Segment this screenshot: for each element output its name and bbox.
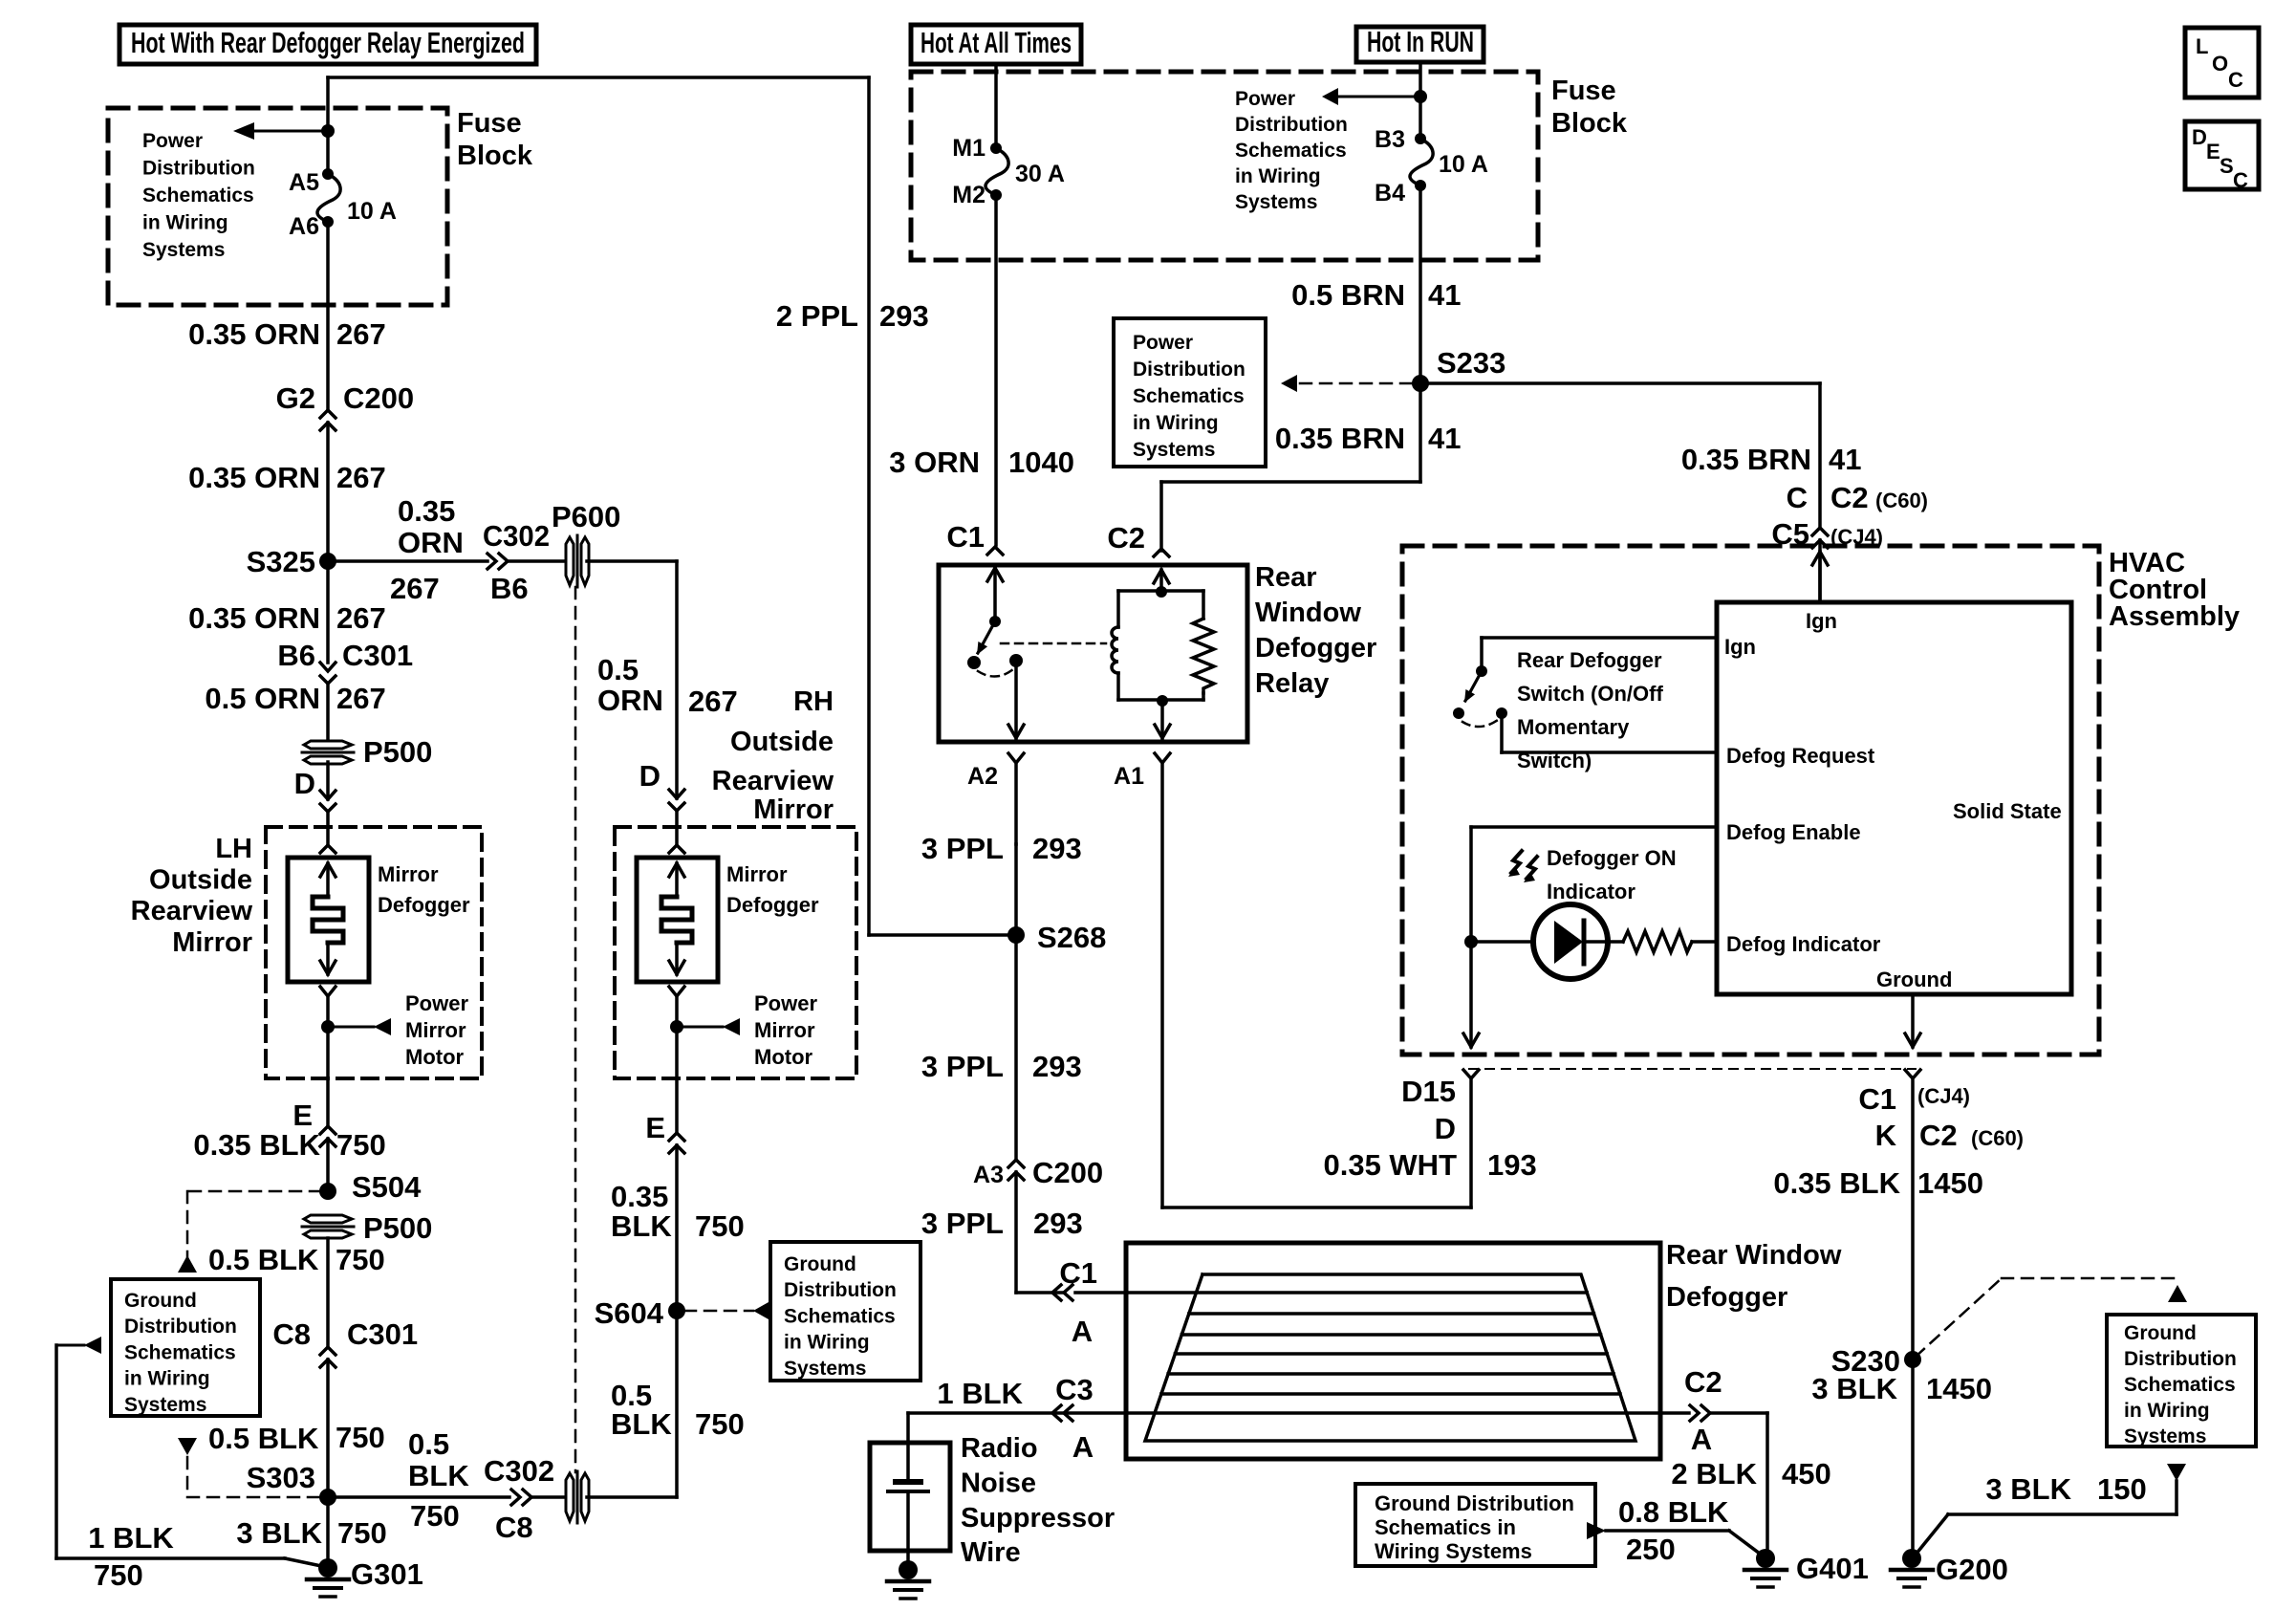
svg-text:0.35: 0.35 xyxy=(398,494,455,528)
wire: C1 feed grid line xyxy=(1126,1291,1587,1295)
svg-text:0.5 BRN: 0.5 BRN xyxy=(1291,278,1405,312)
svg-text:267: 267 xyxy=(336,317,386,351)
node: coil top feed xyxy=(1156,586,1167,598)
svg-text:in Wiring: in Wiring xyxy=(2124,1400,2210,1422)
svg-text:750: 750 xyxy=(695,1407,745,1441)
ground distribution reference box (bottom) xyxy=(1355,1484,1595,1566)
svg-text:750: 750 xyxy=(410,1499,460,1533)
svg-text:150: 150 xyxy=(2097,1472,2147,1506)
node: LH power mirror motor tap xyxy=(321,1020,335,1033)
svg-text:C1: C1 xyxy=(1059,1256,1097,1290)
splice S233 xyxy=(1412,375,1429,392)
LH mirror defogger element box xyxy=(288,858,369,982)
connector C3 pin A inline arrows xyxy=(1064,1405,1072,1421)
header box: Hot At All Times xyxy=(911,25,1081,64)
svg-text:Ground: Ground xyxy=(124,1290,197,1312)
rear window defogger box xyxy=(1126,1243,1660,1459)
svg-text:750: 750 xyxy=(695,1209,745,1243)
svg-text:Distribution: Distribution xyxy=(1133,359,1245,381)
svg-text:Power: Power xyxy=(142,130,203,152)
svg-text:Rear Defogger: Rear Defogger xyxy=(1517,648,1662,672)
connector face line (HVAC bottom) xyxy=(1469,1068,1916,1070)
svg-text:293: 293 xyxy=(879,299,929,333)
svg-text:267: 267 xyxy=(336,682,386,715)
wire: C301 to P500 xyxy=(326,684,330,744)
wire: 2 PPL drop to S268 xyxy=(867,77,871,935)
svg-text:Window: Window xyxy=(1255,598,1361,628)
wire: P600 to RH mirror drop xyxy=(587,559,677,563)
svg-text:S: S xyxy=(2220,154,2234,178)
node: junction at fuse block feed xyxy=(321,124,335,138)
wire: P500 to connector D (LH mirror) xyxy=(326,762,330,799)
svg-text:0.35 ORN: 0.35 ORN xyxy=(188,317,320,351)
node: junction to power distribution reference xyxy=(1414,90,1427,103)
svg-text:750: 750 xyxy=(336,1421,385,1454)
svg-text:3 PPL: 3 PPL xyxy=(921,1050,1004,1083)
splice S325 xyxy=(319,553,336,570)
HVAC control assembly dashed box xyxy=(1402,546,2099,1055)
wire: E to S504 xyxy=(326,1139,330,1191)
splice S303 xyxy=(319,1489,336,1506)
wire: S303 to C302 (C8) grommet and RH mirror ground xyxy=(328,1495,509,1499)
svg-text:C200: C200 xyxy=(343,381,414,415)
svg-text:Assembly: Assembly xyxy=(2109,601,2240,632)
defogger grid line xyxy=(1189,1312,1594,1316)
wire: switch to Defog Request xyxy=(1500,719,1504,752)
svg-text:G301: G301 xyxy=(351,1557,423,1591)
wire: RH mirror ground to connector E xyxy=(675,1078,679,1133)
wire: Hot In RUN to 10A fuse xyxy=(1419,62,1422,134)
svg-text:250: 250 xyxy=(1626,1533,1676,1566)
svg-text:750: 750 xyxy=(337,1516,387,1550)
capacitor (radio noise suppressor) xyxy=(896,1479,921,1485)
svg-text:Rearview: Rearview xyxy=(131,896,253,926)
grommet P600 xyxy=(566,537,574,585)
svg-text:293: 293 xyxy=(1032,1050,1082,1083)
svg-text:0.8 BLK: 0.8 BLK xyxy=(1618,1495,1729,1529)
svg-text:C1: C1 xyxy=(1858,1082,1896,1116)
svg-text:in Wiring: in Wiring xyxy=(784,1332,870,1354)
wire: D15 to relay A1 (defog enable) xyxy=(1162,1206,1471,1209)
svg-text:S268: S268 xyxy=(1037,921,1106,954)
svg-text:Distribution: Distribution xyxy=(1235,114,1348,136)
radio noise suppressor box xyxy=(870,1443,950,1551)
svg-text:Ign: Ign xyxy=(1724,635,1756,659)
svg-text:Ground: Ground xyxy=(784,1253,856,1275)
svg-text:750: 750 xyxy=(336,1243,385,1276)
svg-text:Systems: Systems xyxy=(1235,191,1317,213)
svg-text:Radio: Radio xyxy=(961,1433,1038,1464)
svg-text:Systems: Systems xyxy=(142,239,225,261)
rear window defogger grid (trapezoid) xyxy=(1145,1274,1635,1441)
svg-text:E: E xyxy=(292,1099,313,1132)
svg-text:B4: B4 xyxy=(1375,180,1405,207)
svg-text:0.5: 0.5 xyxy=(408,1427,449,1461)
svg-text:P500: P500 xyxy=(363,1211,432,1245)
svg-text:C2: C2 xyxy=(1684,1365,1722,1399)
wire: C200 to S325 xyxy=(326,423,330,561)
arrow + wire: 0.8 BLK 250 ground lead xyxy=(1587,1522,1606,1539)
svg-text:Systems: Systems xyxy=(124,1394,206,1416)
svg-text:Systems: Systems xyxy=(784,1358,866,1380)
fuse block (left) dashed outline xyxy=(108,108,447,305)
splice S230 xyxy=(1904,1351,1921,1368)
wire: S268 to A3/C200 xyxy=(1014,935,1018,1160)
svg-text:Switch): Switch) xyxy=(1517,749,1592,772)
svg-text:S303: S303 xyxy=(247,1461,315,1494)
svg-text:0.35 ORN: 0.35 ORN xyxy=(188,601,320,635)
fuse 10 A (B3-B4) xyxy=(1415,133,1426,144)
wire: drop to radio noise suppressor xyxy=(906,1413,910,1481)
svg-text:0.35 WHT: 0.35 WHT xyxy=(1323,1148,1457,1182)
svg-text:Power: Power xyxy=(405,991,468,1015)
ground (radio noise suppressor) xyxy=(899,1560,918,1579)
dashed arrow: S230 to ground distribution reference (right) xyxy=(1916,1278,2002,1357)
svg-text:Power: Power xyxy=(1235,88,1295,110)
svg-text:Distribution: Distribution xyxy=(142,158,255,180)
svg-text:Defog Enable: Defog Enable xyxy=(1726,820,1861,844)
HVAC solid state module box xyxy=(1717,602,2071,994)
relay coil suppression resistor xyxy=(1202,591,1205,619)
wire: feed from header down into fuse block (x=343) xyxy=(326,77,330,169)
wire: S325 branch to C302 (0.35 ORN 267 B6) xyxy=(328,559,487,563)
wire: LH mirror ground out to connector E xyxy=(326,1078,330,1126)
svg-text:0.35 BLK: 0.35 BLK xyxy=(1773,1166,1900,1200)
relay switch dashed link to coil xyxy=(978,669,1013,677)
svg-text:E: E xyxy=(2206,140,2220,163)
svg-text:C8: C8 xyxy=(495,1511,533,1544)
wire: element to RH power mirror motor junction xyxy=(675,996,679,1078)
svg-text:41: 41 xyxy=(1829,443,1861,476)
wire: Ground pin to C1/K xyxy=(1911,994,1915,1047)
fuse 30 A (M1-M2) xyxy=(990,142,1002,154)
svg-text:Block: Block xyxy=(457,141,533,171)
wire: 1 BLK 750 to G301 xyxy=(54,1345,58,1558)
svg-text:Indicator: Indicator xyxy=(1547,880,1635,903)
wire: 3 BLK 150 ground lead xyxy=(2167,1464,2186,1481)
svg-text:Schematics: Schematics xyxy=(1235,140,1347,162)
svg-text:M2: M2 xyxy=(952,182,986,208)
svg-text:Distribution: Distribution xyxy=(124,1316,237,1338)
rear defogger switch (momentary) xyxy=(1476,665,1487,677)
grommet at C302/C8 xyxy=(566,1473,574,1521)
svg-text:M1: M1 xyxy=(952,135,986,162)
RH mirror connector at defogger element xyxy=(669,845,684,853)
svg-text:A5: A5 xyxy=(289,169,319,196)
svg-text:Schematics: Schematics xyxy=(142,185,254,207)
svg-text:G401: G401 xyxy=(1796,1552,1869,1585)
svg-text:3 PPL: 3 PPL xyxy=(921,832,1004,865)
svg-text:3 ORN: 3 ORN xyxy=(889,446,980,479)
ground G301 xyxy=(318,1558,337,1577)
dashed arrow: S604 to ground distribution reference xyxy=(684,1310,753,1313)
svg-text:Wire: Wire xyxy=(961,1537,1021,1568)
svg-text:E: E xyxy=(645,1111,665,1144)
svg-text:Solid State: Solid State xyxy=(1953,799,2062,823)
svg-text:Ground: Ground xyxy=(2124,1322,2197,1344)
arrow: to RH power mirror motor xyxy=(677,1026,723,1029)
svg-text:41: 41 xyxy=(1428,422,1461,455)
svg-text:A3: A3 xyxy=(973,1162,1004,1188)
svg-text:in Wiring: in Wiring xyxy=(1235,165,1321,187)
svg-text:Mirror: Mirror xyxy=(378,862,439,886)
LH mirror defogger heater element xyxy=(326,863,330,897)
svg-text:Hot At All Times: Hot At All Times xyxy=(921,26,1072,59)
svg-text:Power: Power xyxy=(754,991,817,1015)
svg-text:3 BLK: 3 BLK xyxy=(1811,1372,1897,1405)
svg-text:Motor: Motor xyxy=(405,1045,465,1069)
wire: C3 to C2 grid bottom feed xyxy=(908,1411,1689,1415)
svg-text:(C60): (C60) xyxy=(1875,489,1928,512)
svg-text:0.5 BLK: 0.5 BLK xyxy=(208,1243,319,1276)
wire: C2 to G401 xyxy=(1765,1413,1769,1554)
relay coil loop xyxy=(1118,589,1203,593)
relay switch contacts xyxy=(967,656,981,669)
svg-text:S604: S604 xyxy=(595,1296,664,1330)
svg-text:1450: 1450 xyxy=(1926,1372,1992,1405)
svg-text:267: 267 xyxy=(336,601,386,635)
svg-text:BLK: BLK xyxy=(611,1407,672,1441)
wire: C302 to P600 xyxy=(509,559,569,563)
svg-text:C3: C3 xyxy=(1055,1373,1094,1406)
svg-text:0.35 BLK: 0.35 BLK xyxy=(193,1128,320,1162)
wire: Defog Enable out through D15 xyxy=(1469,942,1473,1047)
node: RH power mirror motor tap xyxy=(670,1020,683,1033)
svg-text:Rearview: Rearview xyxy=(712,766,834,796)
connector C302 (B6) inline arrows xyxy=(487,554,496,569)
grommet P500 (upper) xyxy=(304,741,352,749)
ground distribution reference box (center) xyxy=(770,1242,921,1381)
relay switch blade xyxy=(978,621,995,653)
svg-text:S325: S325 xyxy=(247,545,315,578)
svg-text:10 A: 10 A xyxy=(1439,151,1488,178)
wire: D into RH mirror housing xyxy=(675,811,679,845)
svg-text:P600: P600 xyxy=(552,500,620,533)
svg-text:C2: C2 xyxy=(1919,1119,1958,1152)
svg-text:10 A: 10 A xyxy=(347,198,397,225)
svg-text:293: 293 xyxy=(1032,832,1082,865)
svg-text:193: 193 xyxy=(1487,1148,1537,1182)
svg-text:G2: G2 xyxy=(276,381,315,415)
svg-text:0.35 BRN: 0.35 BRN xyxy=(1681,443,1811,476)
svg-text:Defogger: Defogger xyxy=(1666,1282,1787,1313)
arrow: ground distribution reference (left box) xyxy=(56,1344,84,1347)
svg-text:1040: 1040 xyxy=(1008,446,1074,479)
svg-text:450: 450 xyxy=(1782,1457,1831,1490)
svg-text:RH: RH xyxy=(793,686,834,717)
svg-text:BLK: BLK xyxy=(408,1459,469,1492)
svg-text:293: 293 xyxy=(1033,1207,1083,1240)
connector C302 pin C8 inline arrows xyxy=(511,1490,520,1505)
dashed branch: S303 to ground distribution reference xyxy=(178,1438,197,1455)
svg-text:0.5 BLK: 0.5 BLK xyxy=(208,1422,319,1455)
svg-text:Momentary: Momentary xyxy=(1517,715,1630,739)
header box: Hot In RUN xyxy=(1356,27,1484,62)
ground distribution reference box (left) xyxy=(111,1279,260,1416)
svg-text:A: A xyxy=(1691,1423,1712,1456)
svg-text:D: D xyxy=(639,759,661,793)
svg-text:S233: S233 xyxy=(1437,346,1505,380)
svg-text:Power: Power xyxy=(1133,332,1193,354)
relay switch pivot xyxy=(989,616,1001,627)
svg-text:B3: B3 xyxy=(1375,126,1405,153)
svg-text:K: K xyxy=(1875,1119,1897,1152)
svg-text:Systems: Systems xyxy=(1133,439,1215,461)
svg-text:750: 750 xyxy=(336,1128,386,1162)
svg-text:G200: G200 xyxy=(1936,1553,2008,1586)
grommet P500 (lower) xyxy=(304,1215,352,1223)
wire: E to S604 xyxy=(675,1145,679,1311)
defogger grid line xyxy=(1175,1352,1607,1356)
wire: M2 down to relay C1 xyxy=(994,201,998,545)
svg-text:C: C xyxy=(1787,481,1808,514)
svg-text:C2: C2 xyxy=(1830,481,1869,514)
svg-text:A6: A6 xyxy=(289,213,319,240)
svg-text:267: 267 xyxy=(390,572,440,605)
svg-text:ORN: ORN xyxy=(398,526,464,559)
wire: S230 to G200 xyxy=(1911,1360,1915,1556)
svg-text:D: D xyxy=(2192,125,2207,149)
wire: S604 down to S303 run xyxy=(675,1311,679,1497)
dashed connector line P600 to lower C302 grommet xyxy=(574,587,577,1472)
svg-text:41: 41 xyxy=(1428,278,1461,312)
splice S504 xyxy=(319,1183,336,1200)
svg-text:Ground: Ground xyxy=(1876,968,1952,991)
svg-text:Mirror: Mirror xyxy=(754,1018,815,1042)
wire: S303 to ground G301 xyxy=(326,1497,330,1566)
svg-text:Outside: Outside xyxy=(149,865,252,896)
relay coil (inductor) xyxy=(1112,627,1118,673)
svg-text:0.5: 0.5 xyxy=(597,653,639,686)
svg-text:in Wiring: in Wiring xyxy=(124,1368,210,1390)
wire: S325 down to C301 xyxy=(326,561,330,663)
LED luminous arrows xyxy=(1511,851,1522,873)
svg-text:S504: S504 xyxy=(352,1170,422,1204)
svg-text:Mirror: Mirror xyxy=(726,862,788,886)
wire: Ign to rear defogger switch xyxy=(1482,636,1714,640)
svg-text:A1: A1 xyxy=(1114,763,1144,790)
svg-text:2 BLK: 2 BLK xyxy=(1671,1457,1757,1490)
svg-text:Schematics: Schematics xyxy=(2124,1374,2236,1396)
svg-text:Mirror: Mirror xyxy=(405,1018,466,1042)
svg-text:Defogger ON: Defogger ON xyxy=(1547,846,1677,870)
wire: C8 to S303 xyxy=(326,1360,330,1497)
ground G401 xyxy=(1756,1549,1775,1568)
svg-text:C: C xyxy=(2228,68,2243,92)
power distribution reference box (solid) xyxy=(1114,318,1266,467)
svg-text:O: O xyxy=(2212,52,2228,76)
svg-text:C1: C1 xyxy=(946,520,985,554)
svg-text:Schematics in: Schematics in xyxy=(1375,1515,1516,1539)
wire: Defog Enable to D15 xyxy=(1471,825,1714,829)
svg-text:0.35 BRN: 0.35 BRN xyxy=(1275,422,1405,455)
svg-text:Defog Indicator: Defog Indicator xyxy=(1726,932,1881,956)
svg-text:in Wiring: in Wiring xyxy=(1133,412,1219,434)
fuse block (center) dashed outline xyxy=(911,72,1538,260)
svg-text:1450: 1450 xyxy=(1917,1166,1983,1200)
svg-text:C302: C302 xyxy=(484,1454,554,1488)
RH mirror defogger element box xyxy=(637,858,718,982)
wire: element to power mirror motor junction xyxy=(326,996,330,1078)
DESC reference box xyxy=(2185,121,2259,189)
svg-text:0.5 ORN: 0.5 ORN xyxy=(205,682,320,715)
RH mirror element output fork xyxy=(669,987,684,996)
wire: Hot At All Times to 30A fuse xyxy=(994,64,998,143)
svg-text:Rear Window: Rear Window xyxy=(1666,1240,1842,1271)
wire: S233 down and over to relay C2 xyxy=(1419,383,1422,482)
splice S604 xyxy=(668,1302,685,1319)
ground distribution reference box (right) xyxy=(2107,1315,2256,1447)
header box: Hot With Rear Defogger Relay Energized xyxy=(119,25,536,64)
svg-text:(C60): (C60) xyxy=(1971,1126,2024,1150)
svg-text:Suppressor: Suppressor xyxy=(961,1503,1115,1534)
arrow: to power distribution reference text xyxy=(1338,96,1420,98)
svg-text:3 BLK: 3 BLK xyxy=(1985,1472,2071,1506)
svg-text:LH: LH xyxy=(215,834,252,864)
svg-text:A: A xyxy=(1072,1315,1093,1348)
svg-text:ORN: ORN xyxy=(597,684,663,717)
svg-text:Distribution: Distribution xyxy=(784,1279,897,1301)
LH mirror connector at defogger element xyxy=(320,845,336,853)
LOC reference box xyxy=(2185,28,2259,98)
svg-text:C301: C301 xyxy=(347,1317,418,1351)
svg-text:Distribution: Distribution xyxy=(2124,1348,2237,1370)
svg-text:D: D xyxy=(1435,1112,1456,1145)
wire: relay switch to A2 xyxy=(1014,661,1018,738)
defogger grid line xyxy=(1181,1333,1600,1337)
LED defogger ON indicator xyxy=(1471,940,1533,944)
LH mirror element output fork xyxy=(320,987,336,996)
wire: P500 to C301 (C8) xyxy=(326,1238,330,1347)
svg-text:Systems: Systems xyxy=(2124,1425,2206,1447)
ground G200 xyxy=(1902,1549,1921,1568)
svg-text:C8: C8 xyxy=(272,1317,311,1351)
defogger grid line xyxy=(1161,1392,1620,1396)
arrow: to LH power mirror motor xyxy=(328,1026,374,1029)
svg-text:3 PPL: 3 PPL xyxy=(921,1207,1004,1240)
svg-text:1 BLK: 1 BLK xyxy=(937,1377,1023,1410)
svg-text:Fuse: Fuse xyxy=(1551,76,1616,106)
svg-text:Hot With Rear Defogger Relay E: Hot With Rear Defogger Relay Energized xyxy=(131,26,525,59)
svg-text:2 PPL: 2 PPL xyxy=(776,299,858,333)
svg-text:30 A: 30 A xyxy=(1015,161,1065,187)
defogger grid line xyxy=(1168,1372,1614,1376)
node: defog indicator tap xyxy=(1464,935,1478,948)
svg-text:Fuse: Fuse xyxy=(457,108,522,139)
svg-text:Outside: Outside xyxy=(730,727,834,757)
rear window defogger relay box xyxy=(939,565,1247,742)
svg-text:0.35: 0.35 xyxy=(611,1180,668,1213)
RH outside rearview mirror dashed box xyxy=(615,827,856,1078)
svg-text:P500: P500 xyxy=(363,735,432,769)
svg-text:Rear: Rear xyxy=(1255,562,1317,593)
svg-text:BLK: BLK xyxy=(611,1209,672,1243)
svg-text:D15: D15 xyxy=(1401,1075,1456,1108)
svg-text:L: L xyxy=(2196,34,2208,58)
svg-text:Defogger: Defogger xyxy=(726,893,819,917)
svg-text:Defogger: Defogger xyxy=(378,893,470,917)
wire: S233 right to HVAC C5 xyxy=(1420,381,1820,385)
wire: B4 down to S233 xyxy=(1419,191,1422,383)
svg-text:C2: C2 xyxy=(1107,521,1145,555)
svg-text:B6: B6 xyxy=(490,572,529,605)
node: coil bottom xyxy=(1157,695,1168,707)
svg-text:Defogger: Defogger xyxy=(1255,633,1376,664)
svg-text:Ground Distribution: Ground Distribution xyxy=(1375,1491,1574,1515)
svg-text:Switch (On/Off: Switch (On/Off xyxy=(1517,682,1663,706)
svg-text:(CJ4): (CJ4) xyxy=(1917,1084,1970,1108)
splice S268 xyxy=(1014,844,1018,935)
